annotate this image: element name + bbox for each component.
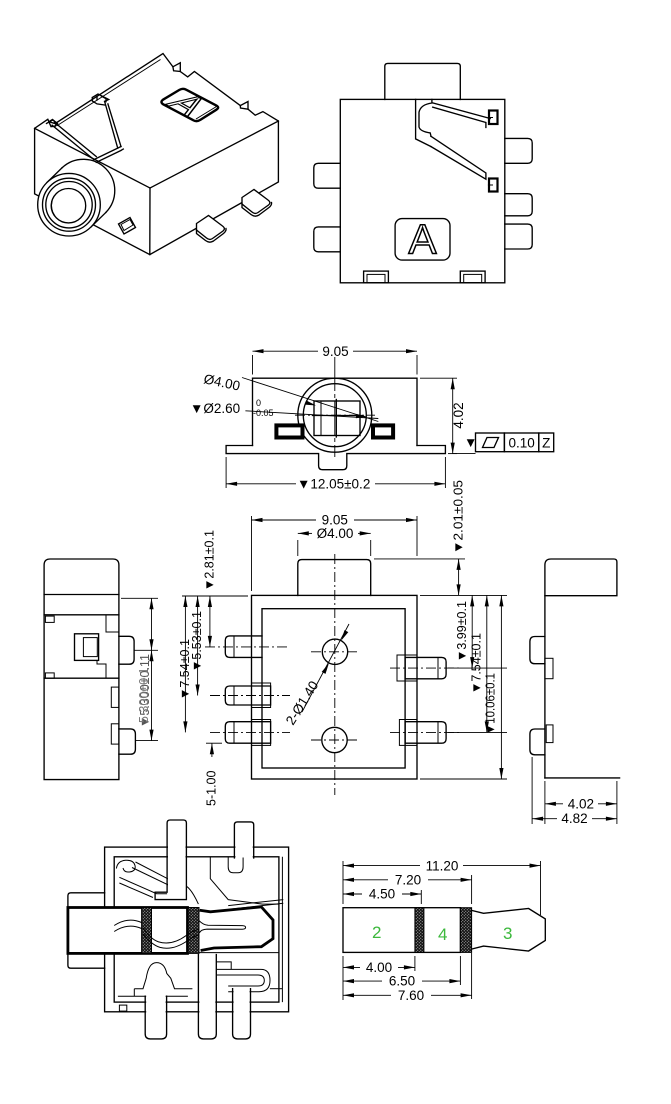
rp1 row ext <box>448 667 507 669</box>
hatch band 1 <box>415 908 424 953</box>
flange line <box>44 594 119 596</box>
centerline bump2 row <box>135 740 158 742</box>
top ext lines <box>342 861 344 904</box>
svg-text:9.05: 9.05 <box>322 344 348 359</box>
svg-text:A: A <box>408 216 436 263</box>
svg-text:Ø4.00: Ø4.00 <box>317 526 354 541</box>
barrel tangent top <box>47 168 62 183</box>
svg-text:▼10.06±0.1: ▼10.06±0.1 <box>484 673 498 735</box>
left bump 1 <box>530 637 545 664</box>
notch triangle 1 bottom <box>173 67 180 72</box>
right bottom shelf <box>270 988 283 990</box>
hatch band 2 <box>188 908 199 954</box>
plug tip bold <box>200 907 273 951</box>
svg-text:▼7.54±0.1: ▼7.54±0.1 <box>178 639 192 700</box>
barrel hole <box>51 189 85 223</box>
top face outline with notches <box>35 54 279 255</box>
svg-text:▼2.81±0.1: ▼2.81±0.1 <box>203 530 217 591</box>
A marking box <box>395 219 450 261</box>
barrel ring 2 <box>46 182 92 228</box>
bottom foot left <box>364 271 389 283</box>
dim 4.50 <box>343 893 362 895</box>
tip inner slot <box>199 921 245 933</box>
small left step bottom <box>45 673 54 678</box>
spring wedge <box>431 136 486 179</box>
leader 2-d1.40 <box>302 624 349 712</box>
svg-text:7.20: 7.20 <box>395 872 421 887</box>
left edge hook tab <box>49 119 57 126</box>
pin A <box>197 216 225 240</box>
top flange rect <box>545 559 617 596</box>
vertical centerline <box>334 554 336 795</box>
dim 11.20 <box>343 865 420 867</box>
svg-text:0: 0 <box>256 398 261 408</box>
shaft <box>343 908 460 953</box>
barrel front outer <box>38 173 101 236</box>
small left step top <box>45 616 54 622</box>
left pad <box>276 425 302 437</box>
left pin 1 <box>225 636 262 658</box>
svg-text:2: 2 <box>372 923 381 942</box>
left pin 1 <box>314 163 341 188</box>
dim 7.60 <box>343 994 391 996</box>
dim 5.53 left <box>197 596 199 696</box>
funnel bottom bar <box>94 147 123 163</box>
right pin 3 <box>505 224 532 249</box>
wall slot 1 <box>545 658 553 678</box>
spring mid-left curve <box>114 920 141 931</box>
svg-text:6.50: 6.50 <box>389 974 415 989</box>
mid line <box>44 677 119 679</box>
barrel tangent bottom <box>91 212 106 227</box>
flange <box>226 446 445 470</box>
funnel left anchor <box>47 120 58 127</box>
top cutout rounded parallelogram <box>161 89 218 121</box>
floor step left <box>119 1005 126 1011</box>
front vertical edge <box>149 188 151 255</box>
dim 7.20 <box>343 879 388 881</box>
body bottom ext <box>420 778 507 780</box>
spring outer left outline <box>416 99 431 146</box>
top pin 1 (long center) <box>168 846 186 899</box>
spring top-left curl <box>116 860 135 872</box>
svg-text:▼Ø2.60: ▼Ø2.60 <box>190 401 240 416</box>
outer housing <box>105 847 289 1012</box>
svg-text:-0.05: -0.05 <box>253 408 274 418</box>
hatch band 1 <box>142 908 152 954</box>
svg-text:0.10: 0.10 <box>508 435 534 450</box>
dim 7.54 left <box>184 596 186 732</box>
svg-text:4.02: 4.02 <box>568 796 594 811</box>
hole 1 <box>322 639 347 664</box>
top face inner edges <box>150 121 278 188</box>
pin B <box>242 190 270 214</box>
dim 5-1.00 <box>206 742 222 744</box>
dim 9.05 top <box>251 516 253 591</box>
spring upper tab <box>489 111 498 125</box>
dim 12.05 bottom <box>225 457 227 488</box>
svg-text:Z: Z <box>542 435 550 450</box>
centerlines <box>295 414 375 416</box>
left pin 2 <box>314 227 341 252</box>
right pin 1 <box>405 657 446 678</box>
svg-text:▼2.01±0.05: ▼2.01±0.05 <box>451 480 465 554</box>
svg-text:7.60: 7.60 <box>398 988 424 1003</box>
barrel top ext right <box>374 558 465 560</box>
socket rect inner <box>83 638 97 657</box>
square hole <box>314 401 360 436</box>
dim 9.05 top <box>253 350 319 352</box>
svg-text:5.300±0.1: 5.300±0.1 <box>137 667 151 723</box>
left pin 2 <box>225 686 270 705</box>
sleeve long diagonal <box>228 900 283 909</box>
right pin 1 <box>505 138 532 163</box>
svg-text:4.82: 4.82 <box>561 811 587 826</box>
body <box>253 378 418 445</box>
pin1 to sleeve curve <box>186 886 198 904</box>
svg-text:▼7.54±0.1: ▼7.54±0.1 <box>470 633 484 694</box>
spring C-hook <box>419 99 432 136</box>
svg-text:▼5.53±0.1: ▼5.53±0.1 <box>190 611 204 672</box>
hole 2 <box>322 727 347 752</box>
outer body <box>252 595 418 779</box>
barrel hole crescent <box>51 202 54 216</box>
top-right U notch <box>228 857 243 873</box>
bottom <box>545 777 620 779</box>
right pin 2 <box>505 194 532 216</box>
ext lines bottom <box>544 781 546 824</box>
dim 4.00 <box>343 966 360 968</box>
funnel right bar <box>105 101 121 148</box>
barrel boss top <box>298 560 371 596</box>
right bump 1 <box>119 636 134 664</box>
tip <box>472 909 546 952</box>
top pin 2 <box>235 846 252 858</box>
cutout inner lip <box>196 107 217 120</box>
spring top-left lower ramp <box>119 877 167 897</box>
svg-text:▼3.99±0.1: ▼3.99±0.1 <box>455 601 469 662</box>
second line <box>44 614 119 616</box>
bottom pin 2 (long center) <box>199 956 215 1013</box>
inner circle <box>303 384 366 447</box>
plug shaft bold <box>68 908 188 954</box>
dim 4.02 <box>545 803 563 805</box>
bottom-right long spring <box>216 969 270 991</box>
dim 10.06 right <box>500 595 502 779</box>
outer circle <box>298 378 372 452</box>
centerline bump1 row <box>134 649 158 651</box>
top boss <box>385 63 461 99</box>
dim 4.00 <box>297 540 299 556</box>
bottom foot right <box>460 271 485 283</box>
body top row ext right <box>420 594 507 596</box>
spring lower tab <box>489 179 498 192</box>
dim 5.300 line lower <box>151 650 153 740</box>
right bump 2 <box>119 729 135 754</box>
dim 4.02 right <box>420 377 457 379</box>
hole2 centerline <box>311 739 358 741</box>
left bump 2 <box>530 729 545 755</box>
left view body <box>44 559 119 780</box>
dim 5.300 line upper <box>151 598 153 650</box>
top-right chamber <box>210 857 279 904</box>
barrel ring 1 <box>43 178 96 231</box>
inner body <box>262 609 405 768</box>
plug handle <box>68 893 105 968</box>
pin row centerlines <box>205 646 290 648</box>
funnel left bar <box>52 122 96 159</box>
hole1 centerline <box>311 651 359 653</box>
funnel right anchor tab <box>92 94 108 105</box>
svg-text:4: 4 <box>438 925 447 944</box>
spring upper band <box>433 103 491 128</box>
svg-text:4.50: 4.50 <box>369 887 395 902</box>
dim 7.54 right <box>486 595 488 732</box>
wall slot 2 <box>111 724 119 744</box>
left wall <box>544 596 546 778</box>
front face hole <box>119 218 136 235</box>
svg-text:11.20: 11.20 <box>426 858 459 873</box>
bell hat spring <box>134 963 192 989</box>
socket rect outer <box>75 634 99 661</box>
body top row ext left <box>182 595 248 597</box>
svg-text:5-1.00: 5-1.00 <box>205 771 219 806</box>
dim 4.82 <box>532 818 557 820</box>
dim 3.99 right <box>471 595 473 668</box>
svg-text:4.02: 4.02 <box>451 402 466 428</box>
spring S under shaft <box>143 928 199 943</box>
body <box>340 99 505 282</box>
bottom pin 3 <box>234 990 250 1013</box>
right pad <box>373 425 393 437</box>
line under tip <box>200 952 279 954</box>
right pin 2 <box>405 722 446 744</box>
square cross bars <box>335 400 337 438</box>
notch triangle 2 bottom <box>240 106 248 110</box>
wall slot 1 <box>111 687 119 707</box>
flange row ext <box>121 597 158 599</box>
bottom pin 1 <box>146 994 165 1013</box>
left pin 3 <box>225 722 270 744</box>
barrel back ellipse <box>62 159 115 212</box>
bottom ext lines <box>342 956 344 1000</box>
inner housing <box>114 857 279 1002</box>
dim 2.01 right <box>458 559 460 596</box>
svg-text:3: 3 <box>503 924 512 943</box>
shelf right of pin2 <box>216 962 231 970</box>
top-left edge double line <box>57 60 161 127</box>
dim 2.81 left <box>209 596 211 647</box>
L detail right top <box>106 615 119 632</box>
floor plate <box>118 989 188 997</box>
hatch band 2 <box>460 908 471 953</box>
dim 6.50 <box>343 980 382 982</box>
wall slot 2 <box>546 725 553 743</box>
inner right wall second line <box>281 857 283 1002</box>
rp2 row ext <box>448 731 507 733</box>
svg-text:▼12.05±0.2: ▼12.05±0.2 <box>297 477 370 492</box>
